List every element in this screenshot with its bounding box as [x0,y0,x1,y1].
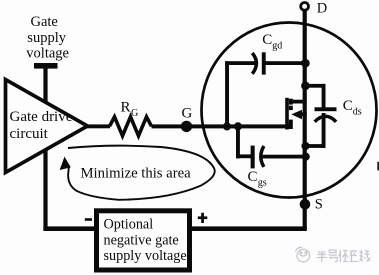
svg-text:Gate: Gate [31,14,58,30]
transistor Q1 channel segment top [289,99,293,105]
capacitor Cgs curved plate [261,146,264,167]
wire: Cds branch vertical lower [322,113,326,148]
junction dot Cds top [301,82,310,91]
op-amp style triangle: gate drive circuit [6,80,88,173]
watermark text: 半导体在线 [317,250,371,262]
watermark logo circle [296,247,310,262]
gate supply T-bar symbol [34,63,58,69]
wire: Cgd cap to drain line [264,61,306,65]
transistor Q1 channel segment middle [289,106,293,110]
box: optional negative gate supply voltage [97,211,190,270]
wire: Cds branch vertical upper [322,84,326,110]
svg-text:Gate drive: Gate drive [10,109,73,125]
main drain-source line [303,9,307,229]
transistor Q1 gate bar [285,98,289,130]
svg-text:C: C [262,32,272,48]
capacitor Cgs straight plate [251,146,255,169]
wire: triangle output to resistor [84,124,110,128]
svg-text:voltage: voltage [26,45,69,61]
transistor Q1 drain lead [291,100,307,104]
wire: Cgd branch horizontal to cap [225,61,255,65]
svg-text:G: G [182,105,193,121]
label: minus polarity [85,218,92,221]
capacitor Cds straight plate [315,107,337,111]
svg-text:G: G [131,108,138,119]
wire: Cgs branch horizontal to cap [236,154,253,158]
junction dot Cds bottom [301,142,309,150]
wire: supply stem down to bottom wire [43,68,47,230]
svg-text:supply: supply [27,30,66,46]
junction dot Cgs at main line [302,153,310,161]
svg-text:gs: gs [258,178,267,189]
transistor Q1 channel segment bottom [289,120,293,129]
svg-text:negative gate: negative gate [104,232,179,248]
svg-text:C: C [343,98,353,114]
wire: Cgs branch vertical down [236,126,240,158]
wire: bottom return wire [43,226,306,231]
terminal D open circle [301,3,309,11]
label: Gate supply voltage [26,14,69,61]
svg-text:ds: ds [353,107,362,118]
MOSFET package circle [202,23,377,198]
capacitor Cgd curved plate [252,53,256,74]
stray mark at right edge [377,162,379,171]
junction dot at Cgs branch [234,122,242,130]
capacitor Cgd straight plate [262,52,266,74]
wire: gate wire from resistor to MOSFET gate [152,124,292,128]
capacitor Cds curved plate [315,116,336,122]
wire: Cds branch bottom horizontal [305,144,326,148]
wire: Cds branch top horizontal [305,84,326,88]
svg-text:S: S [315,197,323,213]
junction dot at Cgd branch [223,122,231,130]
label: plus polarity [198,213,208,223]
node S dot [300,199,311,210]
svg-text:gd: gd [272,41,282,52]
transistor Q1 source/body lead [300,112,307,116]
node G junction dot [181,121,192,132]
svg-text:D: D [317,1,327,17]
annotation arrowhead [60,157,71,170]
resistor RG zigzag [110,117,152,136]
wire: Cgs cap to source line [262,155,307,159]
transistor Q1 body arrow [291,110,302,120]
svg-text:Minimize this area: Minimize this area [81,166,192,182]
svg-text:supply voltage: supply voltage [104,248,187,264]
svg-text:C: C [248,169,258,185]
svg-text:circuit: circuit [10,126,49,142]
svg-text:Optional: Optional [104,216,154,232]
annotation loop: minimize this area [68,146,215,200]
wire: Cgd branch vertical up [225,61,229,126]
svg-text:R: R [121,99,131,115]
junction dot Cgd at main line [301,59,310,68]
